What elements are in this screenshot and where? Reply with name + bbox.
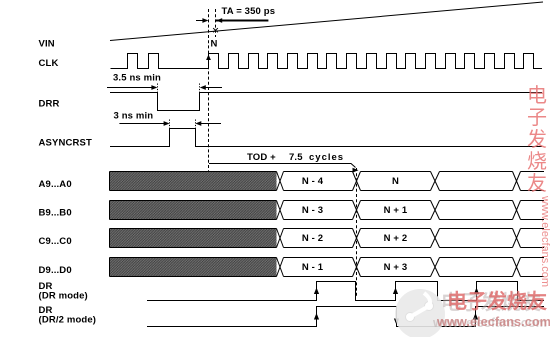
svg-text:C9...C0: C9...C0 [39, 236, 72, 247]
dashed reference line at data transition [356, 168, 358, 296]
svg-text:烧: 烧 [527, 150, 547, 173]
svg-text:3 ns min: 3 ns min [114, 111, 154, 122]
svg-text:N - 1: N - 1 [302, 262, 324, 273]
svg-text:3.5 ns min: 3.5 ns min [113, 73, 161, 84]
svg-text:VIN: VIN [39, 39, 55, 50]
svg-text:N: N [211, 39, 218, 50]
dotted extension ASYNCRST rise [169, 120, 171, 129]
svg-text:DRR: DRR [39, 99, 60, 110]
bus C9...C0 hatched invalid region [110, 229, 277, 248]
svg-text:N - 2: N - 2 [302, 233, 323, 244]
svg-text:(DR/2 mode): (DR/2 mode) [39, 315, 97, 326]
svg-text:发: 发 [527, 128, 547, 151]
svg-text:N + 3: N + 3 [384, 262, 408, 273]
svg-text:N - 4: N - 4 [302, 176, 324, 187]
DRR re-arm left arrow [200, 85, 222, 90]
svg-text:N - 3: N - 3 [302, 205, 323, 216]
TOD dimension arrow [209, 164, 359, 173]
DR rise arrow 1 [314, 288, 319, 295]
svg-text:B9...B0: B9...B0 [39, 208, 72, 219]
TA left arrow [196, 18, 208, 23]
DR/2 rise arrow 2 [473, 313, 478, 320]
dotted extension DRR rise [199, 84, 201, 93]
svg-text:TOD +: TOD + [247, 152, 276, 163]
signal CLK waveform [111, 54, 543, 69]
DR rise arrow 3 [474, 288, 479, 295]
svg-text:ASYNCRST: ASYNCRST [39, 137, 93, 148]
ASYNCRST fall left arrow [195, 121, 221, 126]
signal DR (DR/2 mode) waveform [147, 307, 544, 327]
bus A9...A0 rails and crossovers [110, 172, 545, 191]
signal VIN analog ramp [110, 2, 543, 41]
signal DRR waveform [110, 93, 542, 111]
svg-text:电: 电 [527, 84, 547, 107]
svg-text:A9...A0: A9...A0 [39, 179, 72, 190]
signal DR (DR mode) waveform [147, 282, 544, 301]
sample point cross mark on VIN [213, 28, 218, 32]
watermark logo circle elecfans [395, 289, 445, 337]
dashed reference line at CLK sample instant [208, 9, 210, 182]
dashed reference line at VIN sample point [215, 9, 217, 37]
svg-text:www.elecfans.com: www.elecfans.com [539, 195, 550, 287]
dotted extension DRR fall [157, 84, 159, 93]
svg-text:友: 友 [527, 172, 547, 195]
svg-text:cycles: cycles [309, 152, 344, 163]
svg-text:N + 1: N + 1 [384, 205, 408, 216]
svg-text:N + 2: N + 2 [384, 233, 408, 244]
svg-text:D9...D0: D9...D0 [39, 265, 72, 276]
bus D9...D0 rails and crossovers [110, 258, 545, 277]
svg-text:子: 子 [527, 107, 547, 129]
svg-text:www.elecfans.com: www.elecfans.com [436, 314, 550, 329]
svg-text:7.5: 7.5 [289, 152, 303, 163]
bus B9...B0 rails and crossovers [110, 201, 545, 220]
bus C9...C0 rails and crossovers [110, 229, 545, 248]
DR/2 fall arrow [394, 319, 399, 326]
bus D9...D0 hatched invalid region [110, 258, 277, 277]
TA dimension leader line [216, 20, 268, 22]
svg-text:(DR mode): (DR mode) [39, 291, 88, 302]
TA right arrow [216, 18, 222, 23]
bus A9...A0 hatched invalid region [110, 172, 277, 191]
svg-text:N: N [392, 176, 399, 187]
node N sampling arrow on CLK rising edge [206, 55, 211, 69]
svg-text:电子发烧友: 电子发烧友 [447, 289, 547, 313]
3 ns arrow right [119, 121, 169, 126]
dotted extension ASYNCRST fall [195, 120, 197, 129]
signal ASYNCRST waveform [110, 129, 542, 147]
DR/2 rise arrow 1 [314, 313, 319, 320]
svg-text:TA = 350 ps: TA = 350 ps [222, 6, 276, 17]
svg-text:CLK: CLK [39, 58, 59, 69]
bus B9...B0 hatched invalid region [110, 201, 277, 220]
3.5 ns arrow right [107, 85, 157, 90]
DR rise arrow 2 [393, 288, 398, 295]
